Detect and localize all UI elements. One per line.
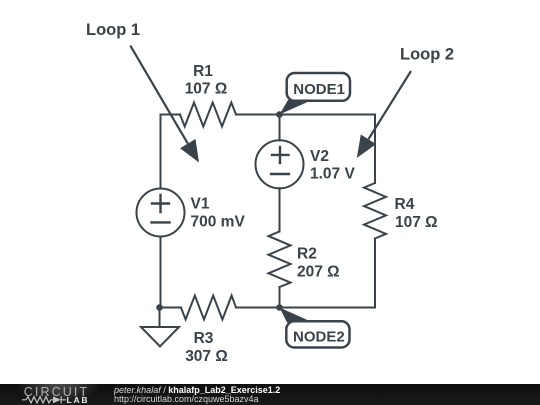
svg-text:307 Ω: 307 Ω	[185, 348, 228, 365]
svg-text:R2: R2	[297, 246, 317, 263]
label Loop 1	[86, 21, 140, 39]
node NODE2 callout	[280, 308, 350, 348]
svg-text:107 Ω: 107 Ω	[185, 81, 228, 98]
loop arrow 1	[130, 46, 199, 163]
svg-text:207 Ω: 207 Ω	[297, 264, 340, 281]
value label R3 307 Ω	[185, 330, 228, 365]
wire middle lower segment	[279, 287, 281, 308]
svg-text:R1: R1	[193, 63, 213, 80]
svg-text:LAB: LAB	[67, 395, 90, 405]
svg-text:V2: V2	[310, 148, 329, 165]
value label V1 700 mV	[191, 196, 246, 231]
voltage source V1	[137, 189, 185, 237]
wire bottom-right segment	[236, 307, 375, 309]
svg-text:Loop 1: Loop 1	[86, 21, 140, 39]
svg-text:NODE1: NODE1	[293, 81, 345, 98]
resistor R3	[181, 296, 236, 320]
junction dot left	[156, 304, 163, 311]
value label R2 207 Ω	[297, 246, 340, 281]
value label R1 107 Ω	[185, 63, 228, 98]
wire bottom-left segment	[160, 307, 182, 309]
wire left upper segment	[160, 115, 162, 189]
junction dot NODE1	[276, 111, 283, 118]
node NODE1 callout	[280, 73, 351, 115]
svg-text:1.07 V: 1.07 V	[310, 166, 355, 183]
wire left lower segment	[160, 237, 162, 308]
ground	[141, 308, 179, 347]
wire right upper segment	[374, 115, 376, 184]
value label V2 1.07 V	[310, 148, 355, 183]
wire middle upper segment	[279, 115, 281, 141]
wire middle mid segment	[279, 188, 281, 231]
label Loop 2	[400, 46, 454, 64]
resistor R2	[269, 231, 291, 287]
svg-text:R3: R3	[194, 330, 214, 347]
wire right lower segment	[374, 239, 376, 308]
voltage source V2	[256, 140, 304, 188]
wire top-left segment	[161, 114, 181, 116]
CircuitLab logo	[20, 384, 120, 405]
attribution text	[114, 385, 280, 395]
resistor R4	[364, 183, 386, 239]
wire top-right segment	[236, 114, 375, 116]
junction dot NODE2	[276, 304, 283, 311]
svg-text:Loop 2: Loop 2	[400, 46, 454, 64]
loop arrow 2	[357, 71, 411, 158]
svg-text:107 Ω: 107 Ω	[395, 214, 438, 231]
footer bar	[0, 384, 540, 405]
svg-text:700 mV: 700 mV	[191, 214, 246, 231]
svg-text:R4: R4	[395, 196, 415, 213]
value label R4 107 Ω	[395, 196, 438, 231]
svg-text:NODE2: NODE2	[293, 329, 345, 346]
svg-text:V1: V1	[191, 196, 210, 213]
resistor R1	[180, 103, 236, 127]
